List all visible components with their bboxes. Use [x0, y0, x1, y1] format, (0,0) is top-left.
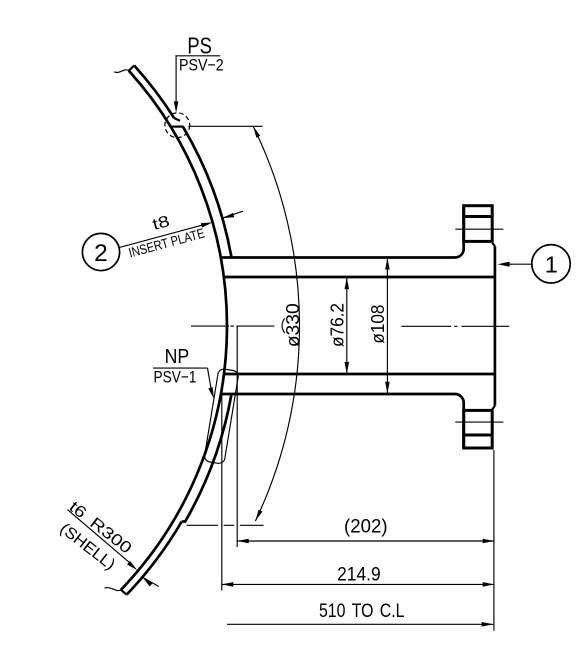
arc symbol over 330: [282, 318, 285, 333]
shell inner surface arc (R300 inside): [121, 71, 227, 590]
t6 leader/underline: [67, 510, 133, 566]
extension line for (202) at insert plate OD: [236, 326, 238, 547]
nozzle bore bottom line (inner dia): [224, 373, 495, 376]
flange stud/nut top: [464, 206, 493, 242]
svg-text:1: 1: [545, 251, 558, 277]
PS underline: [175, 55, 220, 57]
dimension arc phi330 (insert plate): [253, 126, 299, 521]
NP leader: [208, 368, 212, 393]
dim line phi76.2: [346, 278, 348, 373]
dim line (202): [237, 540, 494, 542]
dim line 510 TO C.L: [227, 623, 493, 625]
svg-text:214.9: 214.9: [337, 565, 381, 586]
PS leader: [175, 56, 177, 105]
NP underline: [153, 367, 208, 369]
stud bottom centerline: [455, 421, 503, 423]
stud top centerline: [455, 228, 503, 230]
balloon 1 leader arrow: [508, 263, 532, 265]
svg-text:(202): (202): [344, 517, 388, 538]
PSV-2 hole top cap: [174, 118, 180, 121]
shell bottom end cap: [121, 590, 127, 595]
svg-text:ø330: ø330: [283, 303, 303, 347]
shell top break tail: [114, 70, 129, 73]
nozzle pipe outer top line + flange hub fillet + flange left face: [221, 206, 464, 258]
t8 opposite arrow on outer surface: [223, 213, 235, 218]
shell bottom break tail: [105, 588, 121, 591]
insert plate outer surface arc, lower (t8): [182, 394, 232, 522]
svg-text:PSV−1: PSV−1: [154, 368, 197, 387]
shell top end cap: [129, 66, 134, 71]
raised face bottom step: [492, 406, 495, 410]
dim line phi108: [386, 258, 388, 393]
t6 opposite arrow: [143, 577, 153, 586]
NP coupling outline (rounded rect on shell): [204, 368, 239, 464]
extension line for 214.9 at shell inside: [221, 391, 223, 591]
shell outer surface arc, above insert plate (t6): [134, 66, 174, 119]
svg-text:NP: NP: [165, 346, 190, 368]
svg-text:ø76.2: ø76.2: [327, 303, 347, 347]
phi330 bottom witness line: [187, 524, 264, 526]
svg-text:510 TO C.L: 510 TO C.L: [319, 601, 405, 622]
flange stud/nut bottom: [464, 410, 493, 448]
balloon 2 circle: [82, 233, 119, 270]
extension line at flange face: [493, 450, 495, 631]
svg-text:t8: t8: [151, 213, 172, 234]
t8 arrow tail: [223, 211, 244, 218]
balloon 1 circle: [532, 245, 570, 283]
nozzle pipe outer bottom line + hub fillet + flange left face: [221, 394, 464, 448]
balloon 2 leader (t8 insert plate): [119, 224, 206, 247]
PSV-2 coupling circle on shell: [165, 113, 190, 138]
nozzle bore top line (inner dia): [224, 276, 495, 279]
pipe centerline right segments: [401, 325, 509, 327]
phi330 top witness line: [188, 125, 262, 127]
raised face top step: [492, 243, 495, 246]
svg-text:ø108: ø108: [368, 305, 388, 344]
dim line 214.9: [222, 583, 494, 585]
flange raised face: [494, 246, 497, 405]
insert plate outer surface arc, upper (t8): [183, 127, 232, 258]
svg-text:PSV−2: PSV−2: [179, 55, 224, 74]
t6 arrow tail: [143, 577, 159, 586]
PSV-2 coupling tick: [171, 125, 183, 127]
pipe centerline left segments: [191, 325, 274, 327]
svg-text:2: 2: [94, 240, 108, 267]
shell outer surface arc, below insert plate (t6): [127, 522, 182, 595]
